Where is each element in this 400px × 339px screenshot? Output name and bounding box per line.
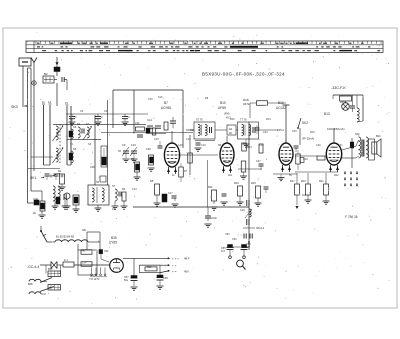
svg-text:T7 T8: T7 T8 <box>240 119 247 122</box>
svg-text:UCH81: UCH81 <box>161 106 172 110</box>
svg-text:B7: B7 <box>164 101 168 105</box>
svg-text:R10: R10 <box>230 118 235 121</box>
svg-text:17R: 17R <box>82 262 87 265</box>
svg-text:+ + +: + + + <box>172 257 179 261</box>
svg-text:R41: R41 <box>81 250 86 253</box>
svg-text:R17: R17 <box>290 180 295 183</box>
svg-text:C11: C11 <box>135 121 140 125</box>
svg-text:C60: C60 <box>104 250 109 253</box>
svg-text:C21: C21 <box>190 129 195 132</box>
svg-text:R40: R40 <box>147 266 152 269</box>
svg-text:C17: C17 <box>168 192 173 195</box>
svg-text:B2: B2 <box>44 72 48 76</box>
svg-text:C10: C10 <box>131 143 136 147</box>
svg-text:45V: 45V <box>184 269 189 273</box>
svg-text:R19: R19 <box>301 180 306 183</box>
svg-text:C24: C24 <box>259 144 264 147</box>
svg-text:R13: R13 <box>247 146 252 149</box>
svg-text:C29: C29 <box>292 130 297 133</box>
svg-text:B10: B10 <box>220 101 226 105</box>
svg-text:1BL: 1BL <box>82 229 87 232</box>
svg-text:C13: C13 <box>132 188 137 191</box>
svg-text:+ =: + = <box>172 269 177 273</box>
svg-text:B5X93U-00G-,0F-00K-,320-,0F-32: B5X93U-00G-,0F-00K-,320-,0F-324 <box>202 72 285 77</box>
svg-text:100(-150mA): 100(-150mA) <box>327 127 345 131</box>
svg-text:Z-1: Z-1 <box>64 259 68 262</box>
svg-text:4n7: 4n7 <box>221 250 226 253</box>
svg-text:R12: R12 <box>234 181 239 185</box>
svg-text:SK2: SK2 <box>302 121 308 125</box>
svg-text:1M: 1M <box>229 133 232 135</box>
svg-text:+ +: + + <box>172 264 177 268</box>
svg-text:C25-4: C25-4 <box>277 129 284 132</box>
svg-text:(FF-20mA): (FF-20mA) <box>302 138 314 141</box>
svg-text:1M: 1M <box>302 194 305 197</box>
svg-text:R3: R3 <box>131 157 135 161</box>
svg-text:C23: C23 <box>263 131 268 134</box>
svg-text:R1: R1 <box>58 169 62 173</box>
svg-text:C30: C30 <box>316 144 321 147</box>
svg-text:4n7: 4n7 <box>246 246 251 249</box>
svg-text:B1 B2 B3 B4 B5: B1 B2 B3 B4 B5 <box>56 236 75 239</box>
svg-text:R16: R16 <box>310 131 315 134</box>
svg-text:F 786 36: F 786 36 <box>345 215 358 219</box>
svg-text:R15: R15 <box>251 181 256 185</box>
svg-text:UF89: UF89 <box>218 106 226 110</box>
svg-text:R5: R5 <box>150 179 154 183</box>
svg-text:2k2: 2k2 <box>228 174 233 177</box>
svg-text:R22: R22 <box>334 174 339 177</box>
svg-text:48 F: 48 F <box>184 257 190 261</box>
svg-text:B13: B13 <box>324 112 330 116</box>
svg-text:B38: B38 <box>28 283 33 286</box>
svg-text:R21: R21 <box>319 180 324 183</box>
svg-text:S7: S7 <box>112 184 116 188</box>
svg-text:SK3: SK3 <box>11 105 18 109</box>
svg-text:-33C-F-K: -33C-F-K <box>331 86 346 90</box>
svg-text:UCL82: UCL82 <box>276 106 286 110</box>
svg-text:C16: C16 <box>148 98 153 101</box>
svg-text:C: C <box>101 116 103 119</box>
svg-text:B36: B36 <box>48 268 53 271</box>
svg-text:T5 T6: T5 T6 <box>196 119 203 122</box>
svg-text:C50: C50 <box>225 233 230 236</box>
svg-text:UY85: UY85 <box>109 241 117 245</box>
svg-text:C58: C58 <box>163 277 168 280</box>
svg-text:C31: C31 <box>338 144 343 147</box>
svg-text:SK1: SK1 <box>30 176 37 180</box>
svg-text:C18: C18 <box>186 138 191 141</box>
svg-text:(FM): (FM) <box>224 112 230 116</box>
svg-text:C28: C28 <box>303 158 308 161</box>
svg-text:S4: S4 <box>86 122 90 126</box>
svg-text:C: C <box>128 116 130 119</box>
svg-text:C39: C39 <box>146 148 151 151</box>
svg-text:50u: 50u <box>124 279 129 282</box>
svg-text:SK4-1: SK4-1 <box>256 226 265 230</box>
svg-text:C19: C19 <box>201 144 206 147</box>
svg-text:R14: R14 <box>266 118 271 121</box>
svg-text:347k: 347k <box>243 102 250 106</box>
svg-text:S5: S5 <box>73 147 77 151</box>
svg-text:-GC-4-4: -GC-4-4 <box>27 265 39 269</box>
svg-text:C36: C36 <box>90 165 95 169</box>
svg-text:7-8 127V: 7-8 127V <box>89 277 100 281</box>
svg-text:C27: C27 <box>256 160 261 163</box>
svg-text:C52: C52 <box>232 238 237 241</box>
svg-text:C26: C26 <box>240 209 245 212</box>
svg-text:B35: B35 <box>111 236 117 240</box>
svg-text:S10: S10 <box>158 96 163 99</box>
svg-text:S2: S2 <box>77 122 81 126</box>
svg-text:R11: R11 <box>208 185 213 189</box>
svg-text:22n: 22n <box>112 208 117 211</box>
svg-text:22nF: 22nF <box>211 216 217 220</box>
svg-text:C: C <box>75 116 77 119</box>
svg-text:C9: C9 <box>122 143 126 147</box>
svg-text:C14: C14 <box>147 118 152 122</box>
svg-text:C15: C15 <box>154 138 159 141</box>
svg-text:B20: B20 <box>376 135 381 138</box>
svg-text:R4: R4 <box>122 187 126 191</box>
